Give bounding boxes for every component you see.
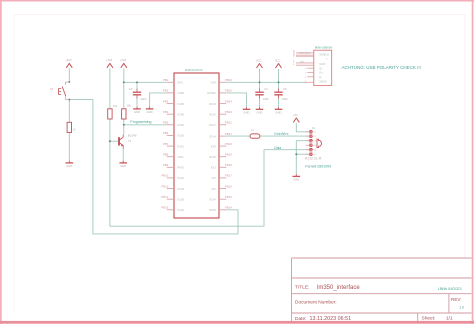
svg-text:PB25: PB25: [225, 89, 232, 93]
svg-text:IO33: IO33: [177, 134, 184, 138]
svg-text:IO23: IO23: [177, 208, 184, 212]
resistor R1 10k (pullup): [108, 104, 118, 119]
power +5V arrow (RJ12 pin1): [293, 113, 299, 122]
power +3V3 arrow (pullup R1): [106, 58, 113, 68]
svg-text:IO22: IO22: [177, 176, 184, 180]
svg-text:1.0: 1.0: [459, 306, 464, 310]
svg-text:PB18: PB18: [225, 163, 232, 167]
svg-text:C5: C5: [283, 87, 287, 91]
svg-text:GND: GND: [177, 91, 185, 95]
IC left pin PB9 RXD: [163, 163, 185, 169]
IC right pin PB17 VP: [212, 174, 233, 180]
svg-text:ACHTUNG: USB POLARITY CHECK !!: ACHTUNG: USB POLARITY CHECK !!!: [342, 65, 421, 70]
net label Programming: [130, 120, 151, 124]
svg-text:lm350_interface: lm350_interface: [317, 285, 360, 291]
svg-text:+3V3: +3V3: [106, 58, 113, 62]
svg-text:ESP32-PICO: ESP32-PICO: [185, 68, 203, 72]
svg-text:PB17: PB17: [225, 174, 232, 178]
svg-text:RJ12-2L-R: RJ12-2L-R: [305, 157, 322, 161]
svg-text:MINI-USB-SH: MINI-USB-SH: [315, 46, 332, 50]
svg-text:PB7: PB7: [163, 142, 169, 146]
svg-text:IO13: IO13: [209, 102, 216, 106]
ferrite bead L1: [250, 128, 260, 138]
RJ12 pin 4: [306, 144, 317, 147]
IC left pin PB2 GND: [163, 89, 185, 95]
svg-text:IO5: IO5: [211, 144, 216, 148]
title block text Date row: [295, 315, 453, 321]
svg-text:C3: C3: [129, 87, 133, 91]
wire VCC to capacitor C4: [259, 69, 261, 107]
wire transistor emitter to ground: [122, 148, 124, 160]
svg-text:+3V3: +3V3: [65, 58, 72, 62]
svg-text:VBUS: VBUS: [319, 80, 327, 84]
transistor T1 BC548: [119, 134, 137, 149]
power +3V3 arrow (button): [65, 58, 72, 68]
svg-text:+3V3: +3V3: [120, 58, 127, 62]
IC right pin PB14 IO35: [209, 206, 232, 212]
USB pin D+: [305, 72, 314, 74]
svg-text:GND: GND: [319, 62, 325, 66]
IC right pin PB21 IO14: [209, 132, 232, 138]
connector X2 RJ12 designator: [312, 126, 316, 130]
IC left pin PB4 IO26: [163, 110, 184, 116]
RJ12 pin 6: [306, 153, 317, 156]
svg-text:PB13: PB13: [161, 206, 168, 210]
svg-text:VCC: VCC: [256, 58, 262, 62]
svg-text:Data: Data: [274, 146, 281, 150]
svg-text:PB23: PB23: [225, 110, 232, 114]
svg-text:VP: VP: [212, 176, 216, 180]
svg-text:D-: D-: [319, 75, 322, 79]
svg-text:GND: GND: [244, 111, 250, 115]
USB pin ID: [305, 68, 314, 70]
wire VIN rail to USB VBUS: [226, 81, 305, 83]
wire data net: pullup to base and RJ12 pin5: [110, 119, 309, 226]
power VCC arrow (C4): [256, 58, 263, 68]
svg-text:RXD: RXD: [177, 166, 184, 170]
IC left pin PB12 IO18: [161, 195, 184, 201]
svg-text:GND: GND: [293, 178, 299, 182]
ground (C5): [275, 107, 283, 115]
svg-text:1/1: 1/1: [446, 315, 453, 321]
ground (C3): [133, 107, 141, 115]
svg-text:PB1: PB1: [163, 78, 169, 82]
USB pin names: [319, 53, 329, 84]
svg-text:IO27: IO27: [209, 123, 216, 127]
svg-text:PB6: PB6: [163, 131, 169, 135]
svg-text:MNT1 MNT2: MNT1 MNT2: [300, 52, 310, 54]
resistor R2 10k (pullup): [122, 103, 132, 119]
svg-text:GND: GND: [120, 164, 126, 168]
RJ12 part name: [305, 157, 322, 161]
ground (emitter): [119, 161, 127, 169]
wire resistor R3 to ground: [68, 133, 70, 161]
svg-text:PB2: PB2: [163, 89, 169, 93]
svg-text:BC548: BC548: [128, 134, 137, 138]
svg-text:PB21: PB21: [225, 132, 232, 136]
USB shield pins S1-S4: [293, 51, 314, 58]
svg-text:GND: GND: [276, 111, 282, 115]
RJ12 Farnell note: [305, 165, 331, 169]
svg-text:10k: 10k: [126, 103, 131, 107]
IC right pin PB24 IO13: [209, 99, 232, 105]
svg-text:10k: 10k: [113, 104, 118, 108]
title block frame: [292, 258, 472, 321]
IC right pin PB20 IO5: [211, 142, 233, 148]
svg-text:GND: GND: [147, 110, 153, 114]
IC left pin PB1 3V3: [163, 78, 183, 84]
svg-text:PB11: PB11: [161, 184, 168, 188]
svg-text:GND2: GND2: [207, 91, 216, 95]
svg-text:S1: S1: [50, 87, 54, 91]
svg-text:PB10: PB10: [161, 174, 168, 178]
svg-text:PB14: PB14: [225, 206, 232, 210]
svg-text:GND: GND: [257, 111, 263, 115]
svg-text:PB24: PB24: [225, 99, 232, 103]
resistor R3 1k (button pulldown): [67, 122, 76, 132]
IC right pin PB22 IO27: [209, 121, 232, 127]
ground (IC GND): [146, 107, 154, 115]
title block text TITLE row: [295, 284, 462, 291]
svg-text:IO19: IO19: [177, 187, 184, 191]
wire button branch to IC pin IO35: [69, 100, 238, 234]
svg-text:ID: ID: [319, 66, 322, 70]
wire onewire net: IC to ferrite to RJ12 pin2: [226, 135, 308, 137]
svg-text:+5V: +5V: [293, 113, 298, 117]
svg-text:IO32: IO32: [177, 123, 184, 127]
svg-text:100n: 100n: [282, 97, 289, 101]
RJ12 pin 5: [306, 149, 317, 152]
svg-text:IO35: IO35: [209, 208, 216, 212]
svg-text:100n: 100n: [263, 97, 270, 101]
wire +3V3 to pullup resistor R1: [109, 68, 111, 109]
svg-text:PB5: PB5: [163, 121, 169, 125]
svg-text:IO25: IO25: [177, 102, 184, 106]
svg-text:PB20: PB20: [225, 142, 232, 146]
svg-text:8: 8: [293, 64, 294, 66]
svg-text:PB8: PB8: [163, 153, 169, 157]
svg-text:S4: S4: [293, 55, 295, 57]
power +3V3 arrow (IC supply): [120, 58, 127, 68]
svg-text:Farnell 2891009: Farnell 2891009: [305, 165, 331, 169]
node C3 tap: [136, 81, 138, 83]
wire RJ12 pins 3 and 6 to ground: [296, 141, 308, 175]
svg-text:100n: 100n: [140, 97, 147, 101]
svg-text:Date:: Date:: [295, 316, 306, 322]
ground (IC GND2): [243, 107, 251, 115]
svg-text:Document Number:: Document Number:: [295, 299, 337, 305]
svg-text:PB15: PB15: [225, 195, 232, 199]
ground (button resistor): [66, 161, 74, 169]
RJ12 housing: [317, 139, 321, 147]
svg-text:GND: GND: [66, 164, 72, 168]
svg-text:IO12: IO12: [209, 112, 216, 116]
svg-text:GND: GND: [300, 62, 305, 64]
svg-text:IO26: IO26: [177, 112, 184, 116]
USB pin VBUS: [305, 81, 314, 83]
svg-text:PB26: PB26: [225, 78, 232, 82]
node collector junction: [123, 124, 125, 126]
svg-text:Programming: Programming: [130, 120, 151, 124]
wire button to resistor R3: [68, 100, 70, 123]
wire capacitor C3 branch: [136, 82, 138, 107]
capacitor C4 100n: [255, 87, 269, 101]
wire IC GND2 pin to ground: [226, 93, 246, 107]
node C4 tap: [259, 81, 261, 83]
wire IC GND pin to ground: [150, 93, 167, 107]
wire VCC to capacitor C5: [278, 69, 280, 107]
pushbutton S1: [50, 82, 69, 99]
IC left pin PB5 IO32: [163, 121, 184, 127]
IC left pin PB13 IO23: [161, 206, 184, 212]
svg-text:TITLE:: TITLE:: [295, 284, 309, 290]
wire +3V3 to button: [68, 68, 70, 82]
title block text Document row: [295, 297, 464, 309]
RJ12 pin 2: [306, 135, 317, 138]
net label OneWire: [274, 132, 289, 136]
node button bottom: [68, 99, 70, 101]
IC right pin PB19 IO15: [209, 153, 232, 159]
svg-text:PB22: PB22: [225, 121, 232, 125]
svg-text:L1: L1: [251, 128, 255, 132]
connector X1 MINI-USB designator: [315, 46, 332, 50]
IC right pin PB26 VIN: [211, 78, 233, 84]
node 3V3 rail: [123, 81, 125, 83]
IC left pin PB3 IO25: [163, 99, 184, 105]
svg-text:GND: GND: [134, 110, 140, 114]
svg-text:SHIELD: SHIELD: [319, 53, 329, 57]
svg-text:3V3: 3V3: [177, 81, 183, 85]
RJ12 pin 3: [306, 140, 317, 143]
svg-text:IO34: IO34: [209, 197, 216, 201]
svg-text:PB9: PB9: [163, 163, 169, 167]
IC right pin PB16 VN: [211, 184, 232, 190]
net label Data: [274, 146, 281, 150]
svg-text:VIN: VIN: [211, 81, 216, 85]
IC left pin PB11 IO19: [161, 184, 184, 190]
capacitor C5 100n: [274, 87, 288, 101]
op-amp style IC U1 ESP32-PICO module box: [174, 68, 219, 218]
wire boot net: resistor R2, collector, IC pin: [124, 119, 167, 135]
svg-text:IO2: IO2: [211, 166, 216, 170]
node C5 tap: [278, 81, 280, 83]
svg-text:OneWire: OneWire: [274, 132, 289, 136]
svg-text:IO21: IO21: [177, 144, 184, 148]
IC left pin PB6 IO33: [163, 131, 184, 137]
wire +3V3 rail to IC 3V3 pin: [124, 68, 167, 109]
svg-text:PB16: PB16: [225, 184, 232, 188]
svg-text:PB12: PB12: [161, 195, 168, 199]
svg-text:PB4: PB4: [163, 110, 169, 114]
svg-text:IO18: IO18: [177, 197, 184, 201]
node button top: [68, 81, 70, 83]
node RJ12 gnd junction: [295, 153, 297, 155]
svg-text:X2: X2: [312, 126, 316, 130]
svg-text:PB3: PB3: [163, 99, 169, 103]
power VCC arrow (C5): [275, 58, 282, 68]
svg-text:Sheet:: Sheet:: [422, 315, 436, 321]
svg-text:D+: D+: [319, 71, 323, 75]
USB pin D-: [305, 77, 314, 79]
svg-text:PB19: PB19: [225, 153, 232, 157]
node base junction: [109, 140, 111, 142]
warning note ACHTUNG USB POLARITY: [342, 65, 421, 70]
USB connector box: [314, 50, 332, 85]
svg-text:13.11.2023 06:51: 13.11.2023 06:51: [310, 316, 352, 322]
ground (C4): [256, 107, 264, 115]
svg-text:T1: T1: [128, 139, 132, 143]
IC left pin PB7 IO21: [163, 142, 184, 148]
svg-text:REV:: REV:: [451, 297, 462, 302]
ground (RJ12): [293, 174, 301, 182]
IC left pin PB10 IO22: [161, 174, 184, 180]
USB GND pins: [293, 61, 314, 66]
svg-text:LBNb 04/2023: LBNb 04/2023: [438, 287, 462, 291]
IC right pin PB18 IO2: [211, 163, 233, 169]
IC right pin PB15 IO34: [209, 195, 232, 201]
svg-text:C4: C4: [264, 87, 268, 91]
svg-text:IO14: IO14: [209, 134, 216, 138]
IC right pin PB23 IO12: [209, 110, 232, 116]
wire RJ12 pin1 to +5V: [296, 123, 308, 132]
capacitor C3 100n: [129, 87, 147, 101]
svg-text:VCC: VCC: [275, 58, 281, 62]
svg-text:IO15: IO15: [209, 155, 216, 159]
svg-text:TXD: TXD: [177, 155, 184, 159]
RJ12 pin 1: [306, 131, 317, 134]
svg-text:VN: VN: [211, 187, 215, 191]
IC right pin PB25 GND2: [207, 89, 232, 95]
IC left pin PB8 TXD: [163, 153, 184, 159]
